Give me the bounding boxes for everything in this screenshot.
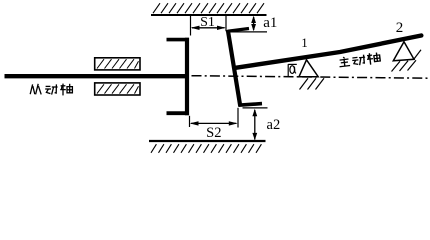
轴 <box>366 52 380 65</box>
lower bearing block <box>95 83 140 95</box>
svg-text:2: 2 <box>396 20 404 36</box>
dimension S2 (bottom flange gap) <box>190 108 239 141</box>
bearing support 2 triangle <box>393 42 414 61</box>
driving shaft (inclined) <box>236 36 422 68</box>
dimension a2 (bottom offset) <box>243 108 281 140</box>
angle alpha marker (shaft misalignment angle) <box>288 64 297 77</box>
left flange hub bottom <box>167 111 190 115</box>
dimension S1 (top flange gap) <box>191 14 227 35</box>
right flange hub top <box>228 29 249 32</box>
动 <box>45 84 57 94</box>
主动轴 label (driving shaft, rotated, hand-drawn glyphs) <box>338 52 380 68</box>
left half-coupling flange (driven side) <box>167 38 190 116</box>
dimension a1 (top offset) <box>227 15 278 32</box>
left flange plate <box>185 38 189 116</box>
driven shaft (left horizontal shaft) <box>5 74 189 78</box>
right half-coupling flange (driving side, tilted) <box>228 29 262 107</box>
support 1 hatching <box>300 78 325 89</box>
动 <box>352 55 366 66</box>
upper bearing block <box>95 58 140 70</box>
svg-text:a1: a1 <box>263 15 277 31</box>
svg-text:a2: a2 <box>267 117 281 133</box>
svg-text:S1: S1 <box>200 15 215 30</box>
support 2 hatching <box>392 50 422 72</box>
right flange hub bottom <box>239 104 262 106</box>
top wall hatching <box>153 3 264 13</box>
从动轴 label (driven shaft, hand-drawn glyphs) <box>30 84 72 96</box>
svg-text:1: 1 <box>301 35 308 50</box>
left flange hub top <box>167 38 190 42</box>
bearing support 1 triangle <box>299 60 318 77</box>
svg-text:S2: S2 <box>206 125 221 141</box>
top wall line <box>151 14 267 16</box>
bottom wall line <box>149 140 266 142</box>
centerline (dash-dot axis) <box>192 76 429 79</box>
从 <box>30 84 41 95</box>
bottom wall hatching <box>151 144 261 153</box>
轴 <box>60 84 72 96</box>
right flange plate <box>228 30 241 107</box>
主 <box>338 56 350 67</box>
